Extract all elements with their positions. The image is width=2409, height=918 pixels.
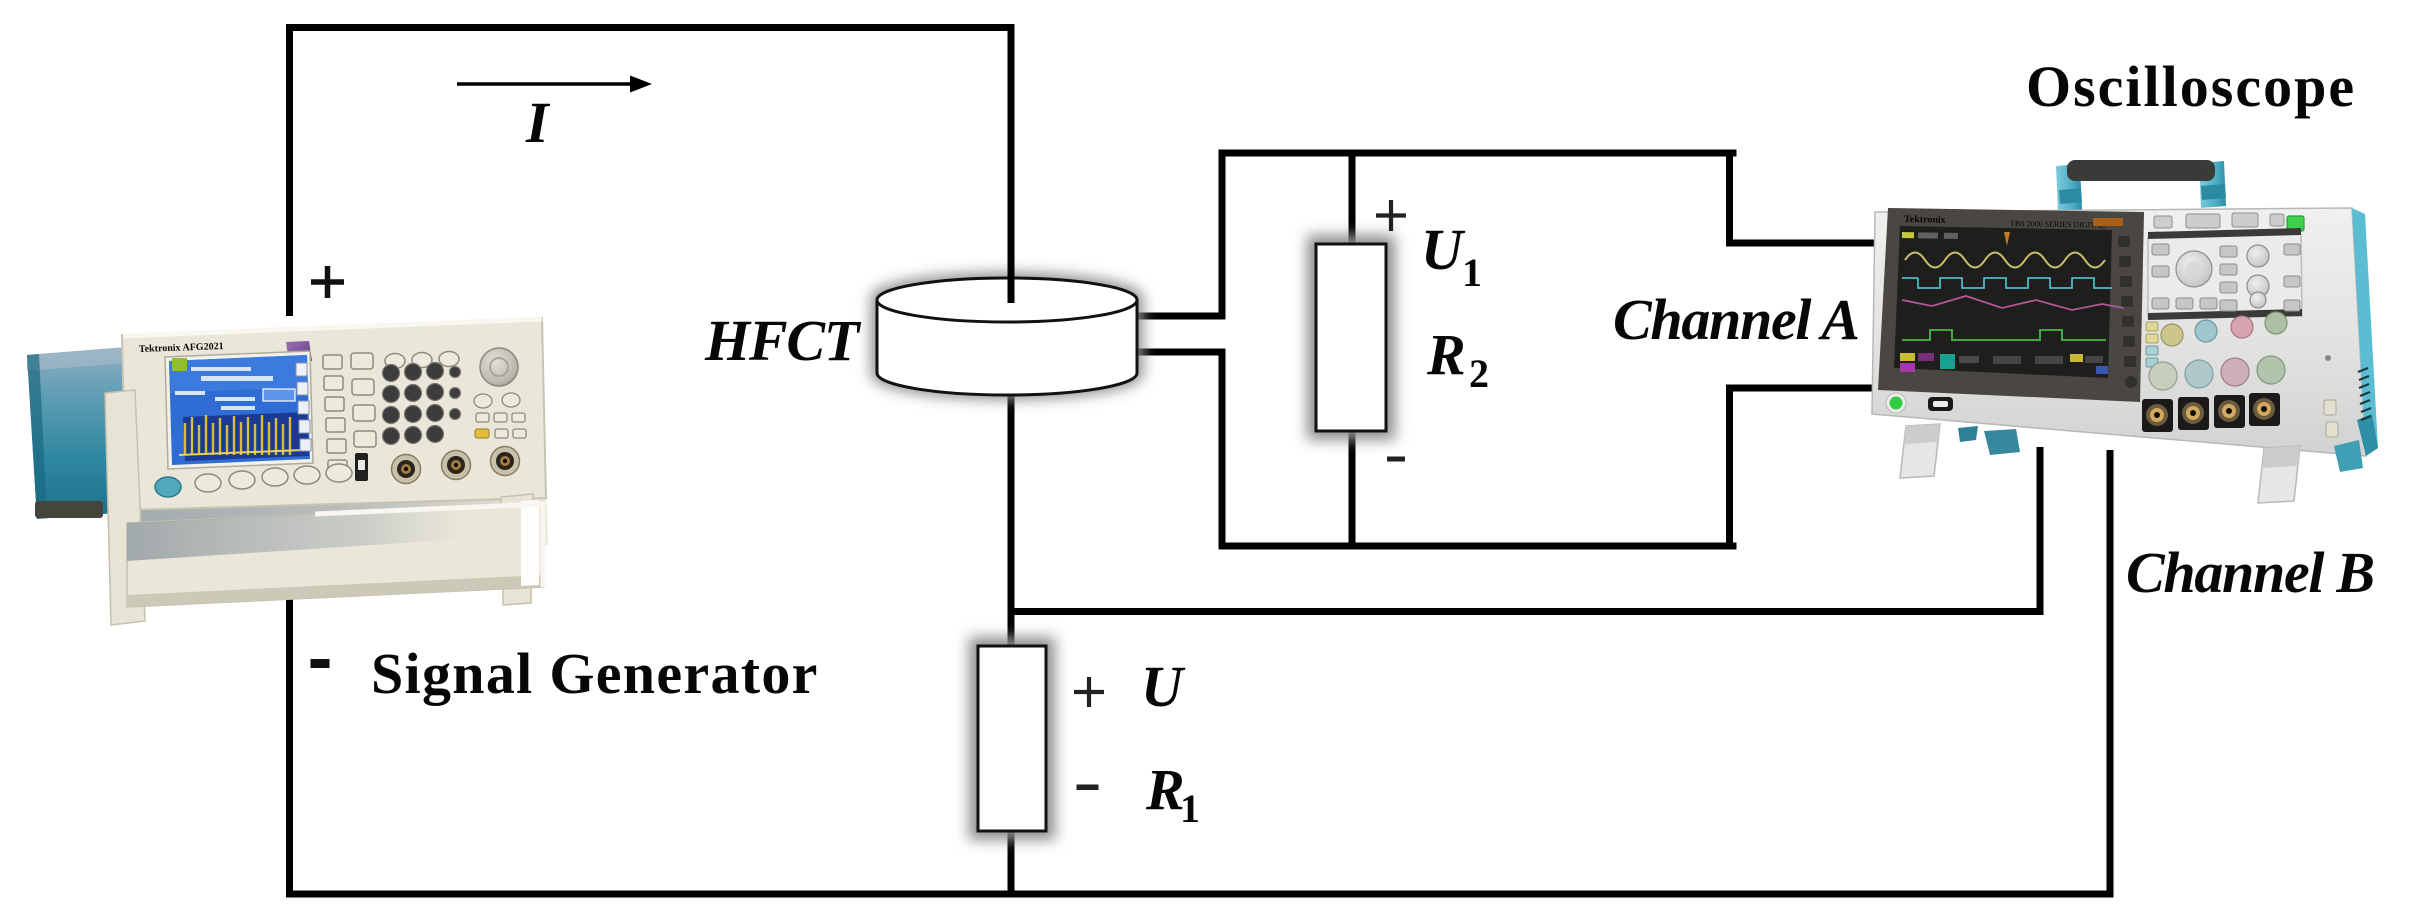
svg-text:1: 1 — [1180, 786, 1200, 831]
svg-text:Channel B: Channel B — [2126, 540, 2374, 605]
svg-text:Tektronix: Tektronix — [1904, 214, 1946, 226]
svg-text:Channel A: Channel A — [1613, 287, 1859, 352]
svg-text:U: U — [1141, 654, 1186, 719]
svg-text:Signal Generator: Signal Generator — [371, 641, 819, 706]
svg-text:Oscilloscope: Oscilloscope — [2026, 54, 2356, 119]
svg-text:2: 2 — [1469, 351, 1489, 396]
svg-text:R: R — [1145, 757, 1185, 822]
svg-text:HFCT: HFCT — [704, 308, 862, 373]
svg-text:I: I — [525, 90, 551, 155]
svg-text:TBS 2000 SERIES DIGITAL: TBS 2000 SERIES DIGITAL — [2010, 219, 2105, 230]
svg-text:1: 1 — [1462, 250, 1482, 295]
svg-text:R: R — [1426, 322, 1466, 387]
svg-text:U: U — [1421, 217, 1466, 282]
